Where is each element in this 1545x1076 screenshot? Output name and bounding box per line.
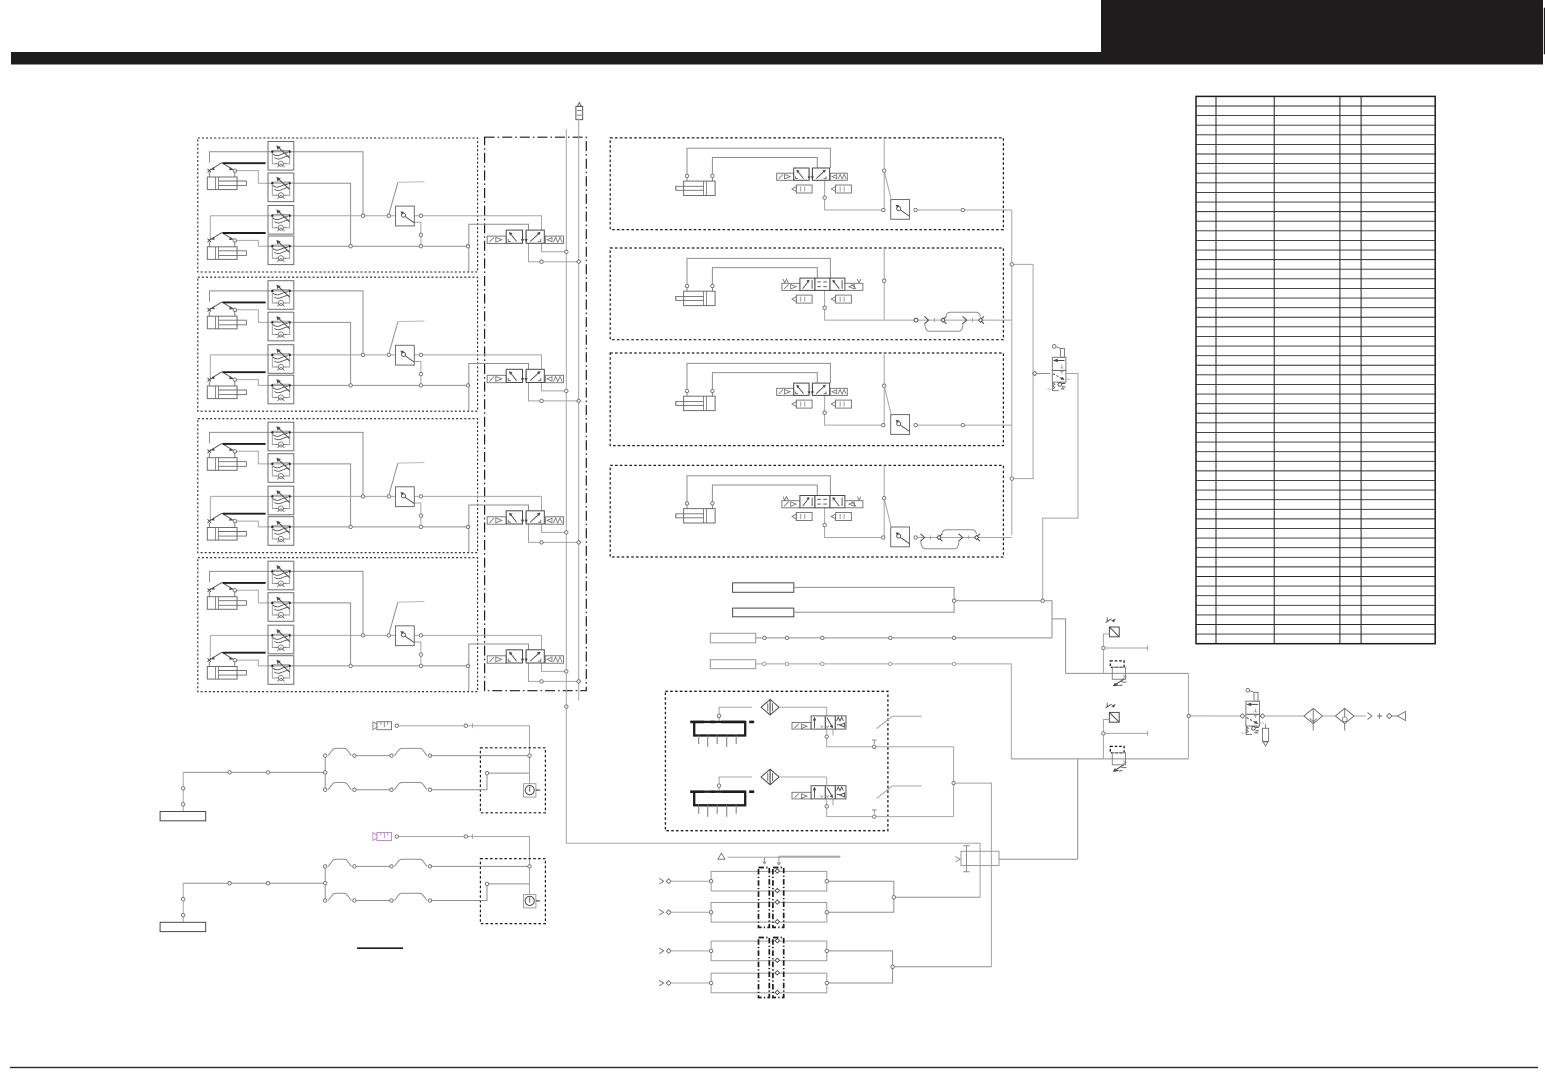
flow control valve A4.3 [268, 625, 294, 654]
cylinder A4.1 [207, 597, 246, 610]
station bus [1012, 210, 1050, 535]
check valve K2 [1106, 703, 1120, 722]
legend triangle [718, 853, 725, 859]
flow control valve A2.3 [268, 345, 294, 374]
nodes A4 [349, 634, 470, 668]
sensor lead A3.1 [223, 443, 266, 445]
channel collectors [829, 881, 992, 983]
shutoff valve [1240, 689, 1269, 747]
station frame B1 [610, 138, 1003, 230]
actuator group frame A1 [198, 138, 478, 272]
gauge panel frame P2 [480, 859, 545, 924]
check valve K1 [1106, 618, 1120, 637]
bridge P1.4 [395, 783, 428, 790]
junction block [956, 846, 1078, 872]
valve nodes V4 [540, 670, 581, 684]
gauge panel frame P1 [480, 748, 545, 813]
bridge P1.2 [395, 748, 428, 755]
limit switch B4 [891, 527, 910, 547]
flow control valve A4.1 [268, 561, 294, 590]
sensor lead A2.1 [223, 301, 266, 303]
limit switch B3 [891, 415, 910, 435]
vacuum filter VU1 [761, 699, 779, 715]
terminal label P2 [160, 922, 206, 931]
reference mark [357, 947, 403, 949]
cylinder A2.1 [207, 316, 246, 329]
nodes A2 [349, 353, 470, 387]
flow control valve A1.4 [268, 236, 294, 265]
nodes A1 [349, 214, 470, 248]
station wires B1 [687, 138, 1012, 210]
branch line 1 [1066, 672, 1189, 674]
junction nodes P2 [182, 865, 532, 917]
junction nodes P1 [182, 754, 532, 806]
wires A1 [210, 152, 478, 272]
page edge mark [1544, 8, 1545, 55]
bridge P1.1 [328, 748, 351, 755]
limit switch B1 [891, 200, 910, 220]
manifold line R [578, 119, 580, 701]
override lever VU1 [877, 716, 922, 729]
actuator group frame A4 [198, 558, 478, 692]
valve feed wires V4 [469, 635, 577, 681]
flow regulator G2 [1110, 746, 1126, 771]
regulated feed [1077, 759, 1079, 859]
branch bus [1187, 673, 1189, 759]
legend leaders [727, 856, 840, 865]
cylinder A3.2 [207, 528, 246, 541]
actuator group frame A3 [198, 419, 478, 553]
parts list table [1196, 96, 1435, 643]
exhaust silencer top [576, 103, 583, 120]
silencer B1.1 [792, 185, 812, 193]
signal wire 3 [756, 636, 1052, 639]
vacuum wires VU2 [719, 777, 954, 817]
branch bus node [1187, 714, 1190, 717]
suction manifold VU1 [690, 722, 754, 747]
station frame B3 [610, 353, 1003, 446]
roller sensor A4.1 [208, 583, 237, 597]
actuator group frame A2 [198, 277, 478, 411]
roller sensor A3.2 [208, 513, 237, 527]
valve nodes V2 [540, 389, 581, 403]
switch lever+nodes B3 [882, 388, 965, 427]
roller sensor A4.2 [208, 652, 237, 666]
valve feed wires V2 [469, 355, 577, 401]
page title bar [11, 52, 1543, 65]
vacuum nodes VU1 [825, 735, 876, 749]
sensor lead A4.2 [223, 652, 266, 654]
title block box [1101, 0, 1543, 65]
switch lever+nodes B1 [882, 173, 965, 212]
manifold node VU2 [717, 784, 720, 787]
flow control valve A2.4 [268, 375, 294, 404]
flow control valve A3.2 [268, 454, 294, 483]
roller sensor A1.1 [208, 163, 237, 177]
manifold node [565, 705, 568, 708]
valve island frame [485, 137, 587, 691]
pilot supply P1 [399, 723, 530, 755]
cylinder B4 [676, 502, 715, 523]
silencer B2.2 [831, 295, 851, 303]
flow control valve A2.2 [268, 312, 294, 341]
silencer B4.2 [831, 513, 851, 521]
node B1 [823, 169, 886, 199]
directional valve V4 [487, 650, 563, 663]
nodes P2a [395, 835, 467, 838]
vacuum valve VU1 [792, 716, 846, 736]
inline valve P2 [373, 833, 392, 841]
bridge P1.3 [328, 783, 351, 790]
cylinder A4.2 [207, 667, 246, 680]
signal label 3 [710, 633, 755, 643]
signal wire 4 [756, 662, 1012, 759]
vacuum filter VU2 [761, 769, 779, 785]
bus nodes [1010, 263, 1037, 481]
roller sensor A2.1 [208, 302, 237, 316]
branch wire upper [1052, 619, 1066, 674]
limit switch A2 [396, 345, 415, 365]
directional valve B3 [777, 383, 848, 395]
gauge P2 [524, 895, 540, 908]
limit switch A1 [396, 206, 415, 226]
wires A2 [210, 291, 478, 411]
filter F1 [1304, 708, 1323, 730]
terminal label P1 [160, 812, 206, 821]
bridge P2.1 [328, 859, 351, 866]
vacuum wires VU1 [719, 707, 954, 747]
pilot supply P2 [399, 834, 530, 866]
branch line 2 [1011, 758, 1188, 760]
cylinder A2.2 [207, 386, 246, 399]
roller sensor A1.2 [208, 233, 237, 247]
sensor lead A1.1 [223, 162, 266, 164]
directional valve V3 [487, 511, 563, 524]
signal wire 1 [794, 587, 954, 600]
inline valve P1 [373, 722, 392, 730]
flow regulator G1 [1110, 661, 1126, 686]
vacuum bus [952, 747, 992, 967]
cylinder A3.1 [207, 458, 246, 471]
bridge P2.2 [395, 859, 428, 866]
flow control valve A4.2 [268, 593, 294, 622]
valve feed wires V1 [469, 216, 577, 262]
sensor lead A4.1 [223, 582, 266, 584]
quick exhaust B2 [914, 312, 984, 331]
limit switch A4 [396, 626, 415, 646]
valve nodes V1 [540, 250, 581, 264]
flow control valve A1.1 [268, 142, 294, 171]
roller sensor A3.1 [208, 444, 237, 458]
gauge P1 [524, 784, 540, 797]
silencer B2.1 [792, 295, 812, 303]
wires A3 [210, 432, 478, 552]
cylinder B2 [676, 284, 715, 305]
override lever VU2 [877, 786, 922, 799]
flow control valve A3.4 [268, 517, 294, 546]
node B3 [823, 384, 886, 414]
manifold line P [566, 129, 980, 897]
flow control valve A1.3 [268, 206, 294, 235]
nodes A3 [349, 495, 470, 529]
signal label 1 [733, 583, 794, 593]
vacuum unit frame [665, 691, 888, 830]
vacuum nodes VU2 [825, 805, 876, 819]
bulkhead connectors [759, 868, 784, 998]
roller sensor A2.2 [208, 372, 237, 386]
station wires B3 [687, 353, 1012, 425]
limit switch A3 [396, 487, 415, 507]
node B4 [823, 496, 886, 526]
station frame B4 [610, 465, 1003, 557]
flow control valve A3.1 [268, 422, 294, 451]
sensor lead A2.2 [223, 371, 266, 373]
silencer B4.1 [792, 513, 812, 521]
sensor lead A1.2 [223, 232, 266, 234]
signal label 2 [733, 608, 794, 617]
distribution wires P2 [183, 866, 529, 922]
nodes P1a [395, 724, 467, 727]
cylinder B3 [676, 389, 715, 410]
station wires B2 [687, 248, 1012, 320]
supply fittings [1368, 712, 1406, 721]
flow control valve A3.3 [268, 486, 294, 515]
bridge P2.4 [395, 893, 428, 900]
connector ports [775, 869, 779, 995]
transfer channels [659, 871, 828, 992]
signal wire 2 [794, 601, 954, 613]
signal label 4 [710, 660, 755, 669]
isolation valve out wire [1043, 374, 1078, 601]
vacuum valve VU2 [792, 786, 846, 806]
quick exhaust B4 [920, 530, 980, 549]
silencer B1.2 [831, 185, 851, 193]
directional valve B2 [782, 278, 863, 290]
cylinder B1 [676, 174, 715, 195]
silencer B3.2 [831, 400, 851, 408]
directional valve B1 [777, 168, 848, 180]
valve nodes V3 [540, 531, 581, 545]
directional valve V2 [487, 369, 563, 382]
directional valve B4 [782, 496, 863, 508]
manifold node VU1 [717, 714, 720, 717]
distribution wires P1 [183, 756, 529, 812]
valve feed wires V3 [469, 496, 577, 542]
cylinder A1.1 [207, 177, 246, 190]
air supply line [1189, 715, 1366, 717]
wires A4 [210, 571, 478, 691]
cylinder A1.2 [207, 247, 246, 260]
station wires B4 [687, 465, 1012, 537]
supply wire upper [954, 601, 1052, 638]
suction manifold VU2 [690, 792, 754, 817]
silencer B3.1 [792, 400, 812, 408]
flow control valve A1.2 [268, 173, 294, 202]
bottom rule [10, 1067, 1538, 1068]
check valve K1 wires [1102, 634, 1148, 673]
station frame B2 [610, 248, 1003, 340]
isolation valve hand [1048, 345, 1071, 391]
sensor lead A3.2 [223, 513, 266, 515]
directional valve V1 [487, 230, 563, 243]
bridge P2.3 [328, 893, 351, 900]
nodes upper [952, 599, 1044, 602]
filter F2 [1335, 708, 1354, 730]
flow control valve A2.1 [268, 281, 294, 310]
node B2 [823, 279, 886, 309]
flow control valve A4.4 [268, 656, 294, 685]
check valve K2 wires [1102, 720, 1148, 759]
switch lever+nodes B4 [882, 500, 918, 539]
